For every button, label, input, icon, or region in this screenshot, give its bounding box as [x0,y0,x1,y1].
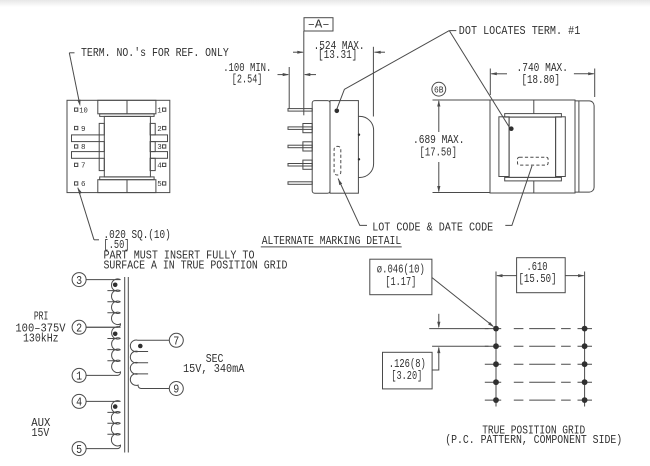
dim .689 up arrowhead [437,100,440,107]
side view: bulge junction tick upper [358,134,360,136]
terminal 7 circle [169,333,183,347]
dim .524 left arrow tail [293,51,303,53]
side view: back pin 2 [303,124,312,133]
svg-text:2: 2 [76,322,82,336]
dim .689 down arrowhead [437,186,440,193]
dim .524 right arrowhead [374,51,381,54]
bottom view: center window [104,116,150,176]
bottom view: left tab pin9 [99,123,104,134]
leader arrowhead at pin 6 [78,188,82,195]
top view: package outline [490,100,575,193]
grid dot row 2 left [493,343,499,349]
svg-text:9: 9 [81,126,86,134]
datum A extension line [303,31,305,115]
dim .610 left arrowhead [496,274,503,277]
dim .100 right arrow tail [305,74,316,76]
callout box .610 [517,258,566,293]
side view: pin row 5 [288,182,312,185]
bottom view: top band divider [126,100,128,114]
bottom view: pin 2 pad [163,126,166,129]
svg-text:9: 9 [173,383,179,397]
leader lot code arrowhead at side view box [338,179,342,186]
dim .740 right arrowhead [588,72,595,75]
phasing dot winding 7 [138,344,143,349]
svg-text:PRI: PRI [34,310,49,323]
dim .740 left extension line [489,69,491,96]
bottom view: right tab pin2 [150,123,155,134]
top view: bottom band [505,177,562,181]
svg-text:(P.C. PATTERN, COMPONENT SIDE): (P.C. PATTERN, COMPONENT SIDE) [445,434,622,447]
leader dash for TERM note [69,52,74,54]
dim .689 line lower [438,162,440,192]
svg-text:TERM. NO.'s FOR REF. ONLY: TERM. NO.'s FOR REF. ONLY [81,47,229,60]
svg-text:5: 5 [157,181,162,189]
top view: right bar [556,117,566,177]
core line left [124,277,126,453]
dim .524 left arrowhead [297,51,304,54]
bottom view: pin 3 pad [163,145,166,148]
bottom view: left clip lower [72,152,100,159]
terminal 9 circle [169,382,183,396]
leader to side view dot [337,31,449,109]
grid dot row 3 left [493,361,499,367]
svg-text:10: 10 [79,107,88,115]
dim .100 extension line [288,67,290,109]
bottom view: top core band [98,100,156,114]
bottom view: pin 7 pad [75,163,78,166]
bottom view: pin 10 pad [75,108,78,111]
top view: terminal 1 locating dot [509,126,514,131]
svg-text:.610: .610 [527,261,548,274]
dim .126 extension row 2 [432,345,488,347]
grid row 2 centerline [485,345,592,347]
svg-text:4: 4 [157,163,162,171]
svg-text:[13.31]: [13.31] [318,49,357,62]
svg-text:4: 4 [76,396,82,410]
dim .100 right arrowhead [304,73,311,76]
bottom view: pin 9 pad [75,126,78,129]
balloon 6B circle [432,82,446,96]
dim .740 right tail [574,73,594,75]
side view: pin row 1 [288,109,312,112]
dim .126 extension row 1 [429,328,488,330]
svg-text:6B: 6B [434,85,444,95]
side view: pin row 4 [288,164,312,167]
grid row 3 centerline [485,363,592,365]
bottom view: package outline [67,100,170,192]
dim .689 line upper [438,101,440,132]
callout box .126 [383,352,433,389]
svg-text:ø.046(10): ø.046(10) [377,263,425,276]
bottom view: left clip upper [72,135,100,142]
grid dot row 1 right [582,326,588,332]
svg-text:7: 7 [81,163,86,171]
top view: lot code dashed box [518,157,549,165]
bottom view: right clip upper [150,135,167,142]
leader line to pin 10 [69,53,79,104]
side view: pin row 2 [288,127,312,129]
secondary winding 7-9 [130,340,169,389]
svg-text:3: 3 [157,144,162,152]
bottom view: right tab pin4 [150,158,155,170]
phasing dot winding 4 [113,404,118,409]
top view: core cap [575,101,594,192]
svg-text:8: 8 [81,144,86,152]
svg-text:SURFACE A IN TRUE POSITION GRI: SURFACE A IN TRUE POSITION GRID [104,260,288,273]
side view: core bulge [358,116,373,177]
svg-text:5: 5 [76,443,82,457]
svg-text:15V: 15V [32,427,50,440]
core line right [127,277,129,453]
terminal 3 circle [72,273,86,287]
bottom view: pin 6 pad [75,182,78,185]
grid row 5 centerline [485,399,592,401]
side view: lot code dashed box [334,146,341,175]
leader arrowhead at grid dot [488,322,494,327]
svg-text:[17.50]: [17.50] [420,146,458,159]
svg-text:7: 7 [173,335,179,349]
dim .524 right arrow tail [374,51,385,53]
dim .689 bottom extension line [433,192,490,194]
top view: window [509,117,555,177]
bottom view: right clip lower [150,152,167,159]
svg-text:[2.54]: [2.54] [232,73,263,86]
leader arrowhead at pin 10 [77,100,80,107]
dim .100 left arrow tail [278,74,289,76]
dim .610 right tail [565,275,583,277]
svg-text:ALTERNATE MARKING DETAIL: ALTERNATE MARKING DETAIL [262,235,402,248]
bottom view: pin 8 pad [75,145,78,148]
datum A box [304,18,333,31]
svg-text:[3.20]: [3.20] [391,370,422,383]
grid left column line [495,272,497,407]
top view: left bar [499,117,509,177]
page top shadow gradient [0,0,650,7]
svg-text:–A–: –A– [308,19,330,32]
grid row 1 centerline [485,328,592,330]
dim .740 right extension line [594,69,596,98]
bottom view: pin 4 pad [163,163,166,166]
svg-text:130kHz: 130kHz [23,332,59,345]
bottom view: right tab pin3 [150,142,155,152]
dim .100 left arrowhead [283,73,290,76]
svg-text:3: 3 [76,274,82,288]
side view: back pin 4 [303,160,312,169]
svg-text:[15.50]: [15.50] [519,273,557,286]
svg-text:1: 1 [157,107,162,115]
grid right column line [584,272,586,407]
dim .524 extension line [372,47,374,117]
grid dot row 2 right [582,343,588,349]
terminal 2 circle [72,320,86,334]
top view: core cap inner line [578,101,580,192]
dim .740 left tail [491,73,507,75]
side view: bobbin flange [312,101,330,194]
side view: body [330,101,358,194]
dim .126 down arrowhead [437,322,440,329]
primary winding section 2-1 [86,327,120,376]
bottom view: left tab pin8 [99,142,104,152]
svg-text:15V, 340mA: 15V, 340mA [183,363,244,376]
svg-text:DOT LOCATES TERM. #1: DOT LOCATES TERM. #1 [459,25,581,38]
grid dot row 5 left [493,397,499,403]
grid dot row 3 right [582,361,588,367]
side view: terminal 1 locating dot [335,109,340,114]
top view: top band [505,114,562,118]
terminal 5 circle [72,442,86,456]
phasing dot winding 3 [113,283,118,288]
grid dot row 1 left [493,326,499,332]
bottom view: pin 1 pad [163,108,166,111]
leader lot code to top view [505,166,532,226]
dim .740 left arrowhead [490,72,497,75]
terminal 4 circle [72,394,86,408]
bottom view: left tab pin7 [99,158,104,170]
bottom view: pin 5 pad [163,182,166,185]
svg-text:[18.80]: [18.80] [522,74,561,87]
top view: top divider [533,100,535,114]
phasing dot winding 2 [113,332,118,337]
dim .610 left tail [497,275,517,277]
dim .126 leader to box [432,348,439,370]
dim .126 upper arrow tail [438,314,440,327]
svg-text:[1.17]: [1.17] [385,276,416,289]
primary winding section 3-2 [86,279,120,327]
grid dot row 5 right [582,397,588,403]
leader lot code to side view [338,179,367,226]
dim .610 right arrowhead [578,274,585,277]
leader to top view dot [449,31,510,128]
svg-text:.689 MAX.: .689 MAX. [413,134,465,147]
grid row 4 centerline [485,381,592,383]
svg-text:6: 6 [81,181,86,189]
side view: pin row 3 [288,145,312,148]
grid dot row 4 right [582,379,588,385]
dim .126 up arrowhead [437,347,440,354]
side view: bulge junction tick lower [358,158,360,160]
svg-text:1: 1 [76,370,82,384]
title underline [261,246,402,248]
bottom view: bottom core band [98,180,156,193]
grid dot row 4 left [493,379,499,385]
callout box dia .046 [370,259,432,295]
svg-text:2: 2 [157,126,162,134]
terminal 1 circle [72,368,86,382]
leader line from pin 6 [78,188,94,240]
top view: bottom divider [533,181,535,193]
bottom view: bottom lip [100,177,154,180]
leader dash at .020 note [94,239,99,241]
aux winding 4-5 [86,401,120,449]
dim .689 top extension line [433,99,490,101]
svg-text:LOT CODE & DATE CODE: LOT CODE & DATE CODE [372,221,493,234]
bottom view: bottom band divider [126,180,128,193]
svg-text:.126(8): .126(8) [389,358,426,371]
leader dia .046 to grid [432,278,493,327]
side view: back pin 3 [303,142,312,151]
leader dash for DOT note [449,30,456,32]
bottom view: top lip [100,114,154,117]
